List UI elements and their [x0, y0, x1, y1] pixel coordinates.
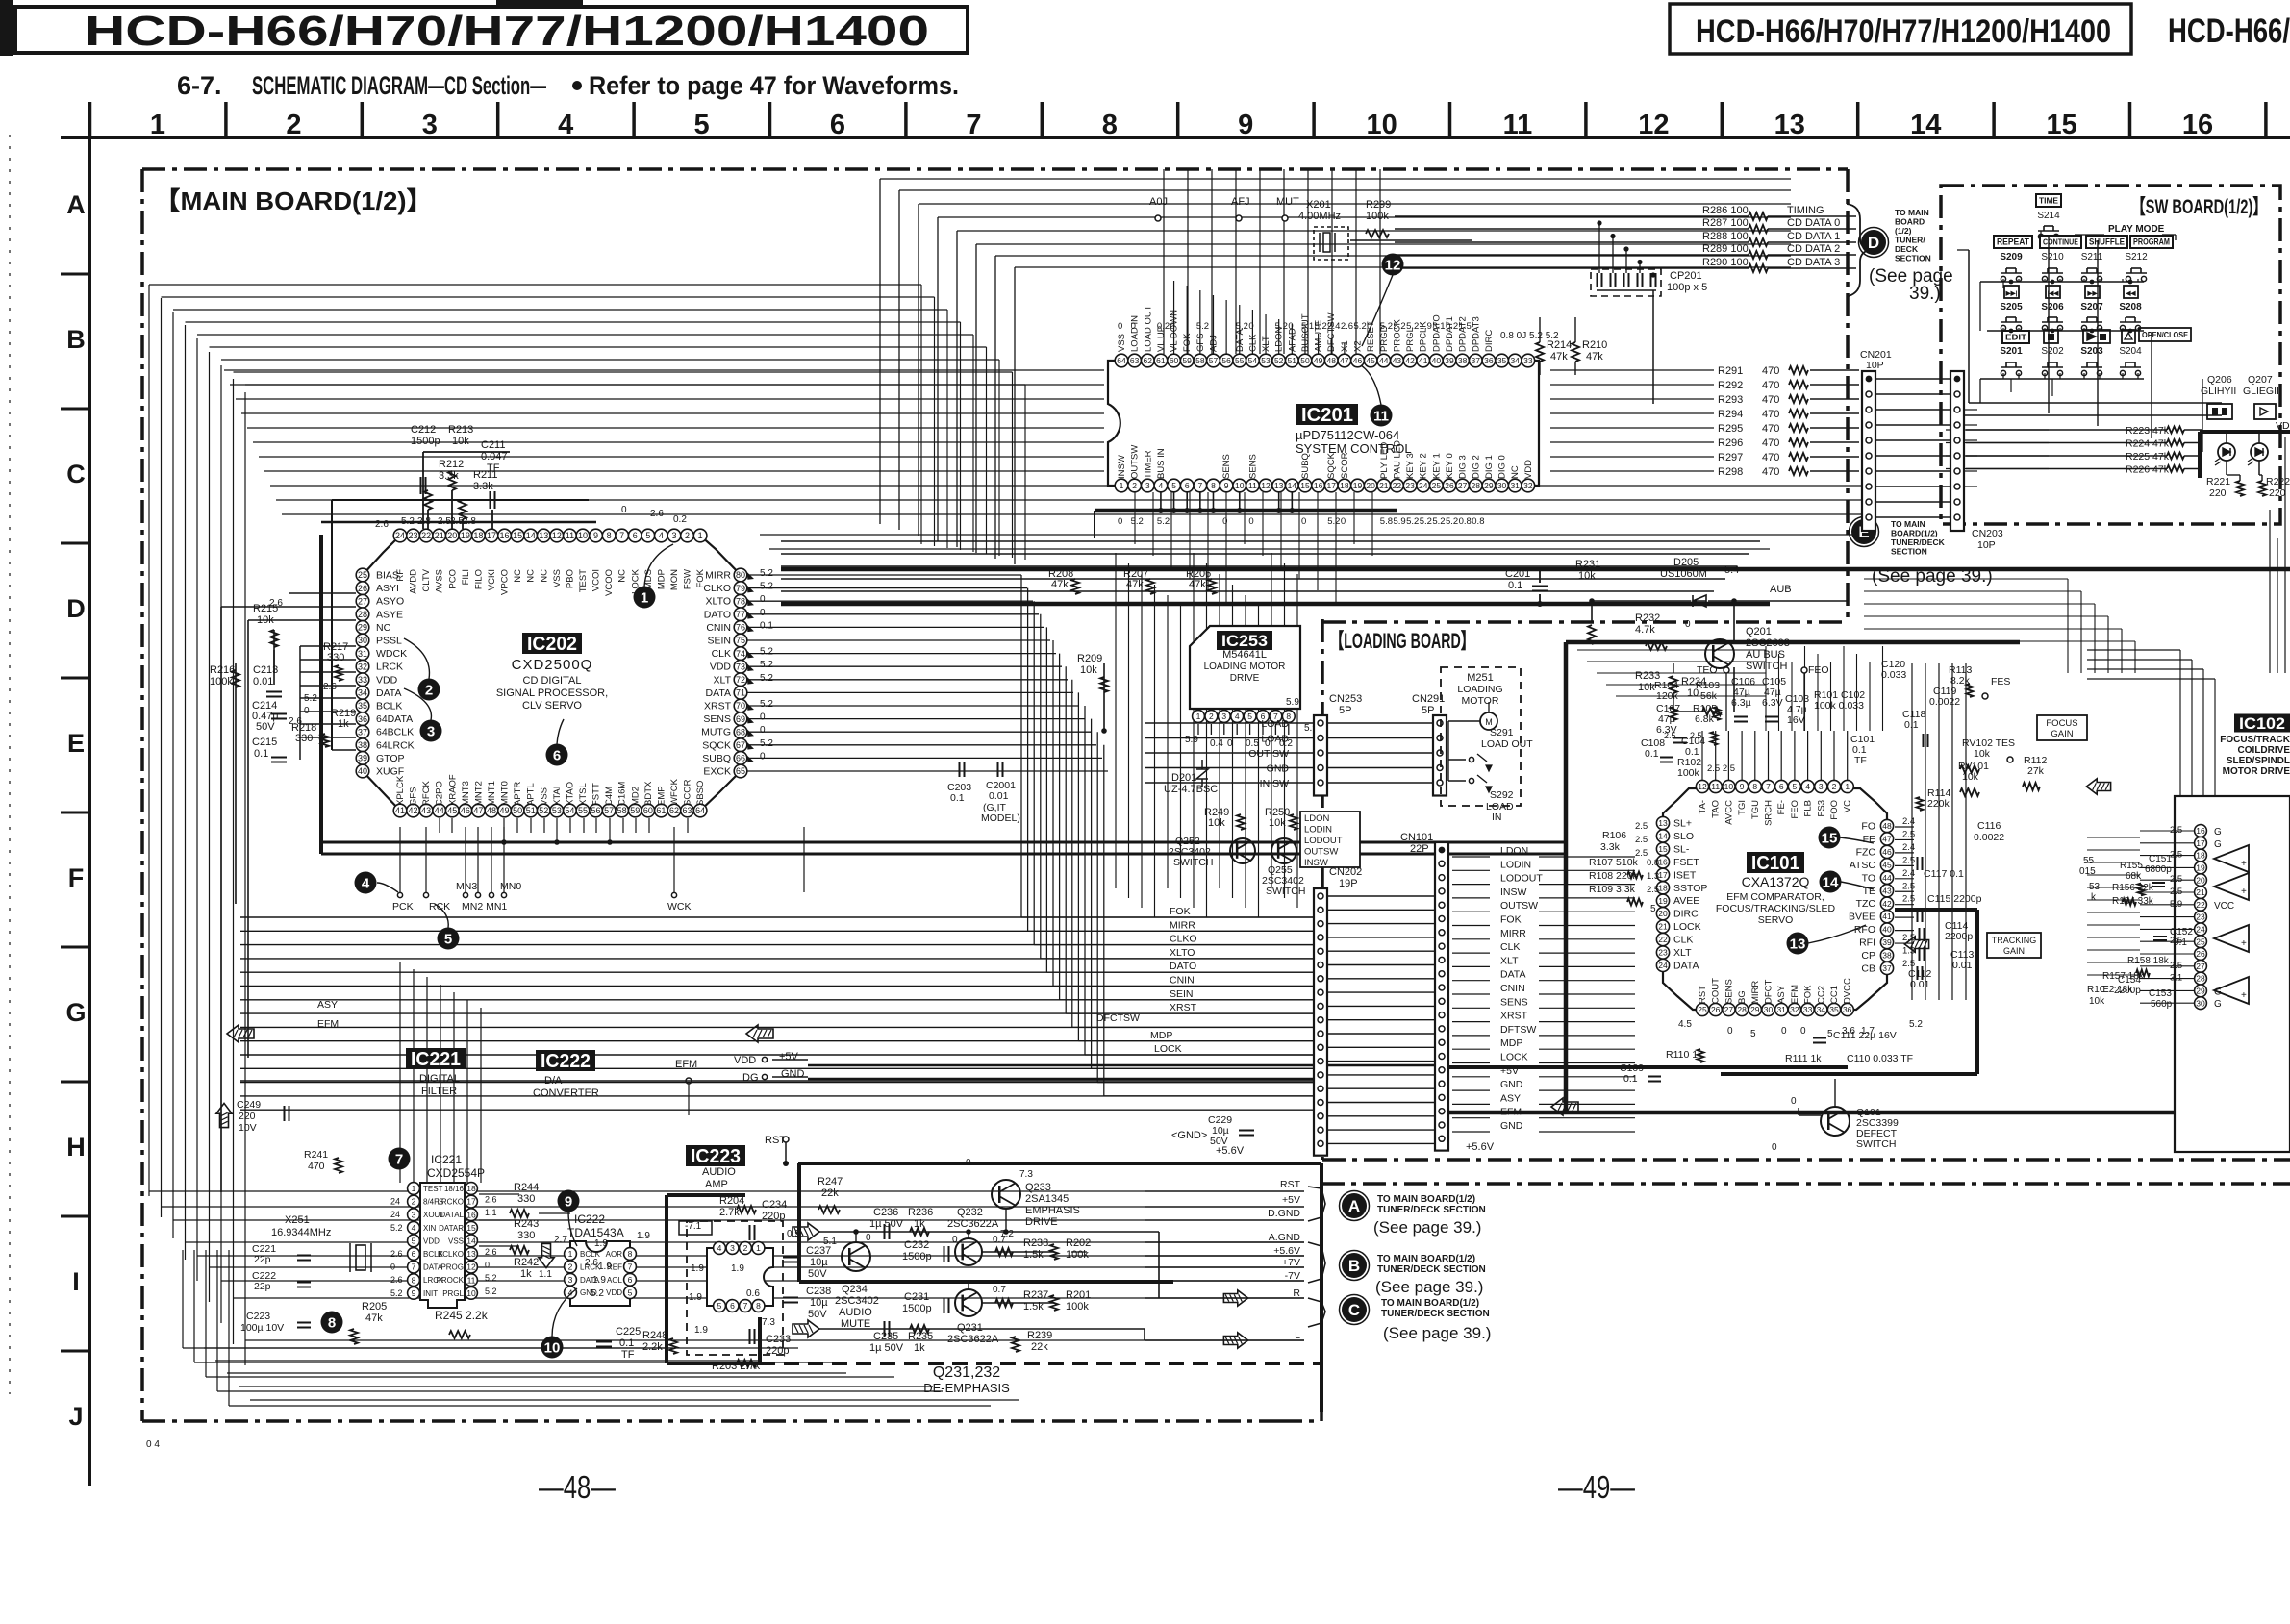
IC102 pin column 16-30 [2195, 825, 2207, 837]
svg-text:AUB: AUB [1770, 584, 1792, 595]
hatched arrows R L to connector C [1223, 1290, 1247, 1306]
svg-text:16: 16 [1658, 857, 1668, 866]
callout digit 6 [546, 744, 568, 766]
svg-text:470: 470 [1762, 365, 1779, 377]
svg-text:2.5: 2.5 [1647, 885, 1659, 895]
svg-text:2: 2 [743, 1243, 748, 1253]
callout digit 14 [1820, 871, 1842, 893]
svg-text:F: F [68, 863, 85, 892]
svg-text:BDTX: BDTX [643, 781, 654, 806]
svg-text:CN101: CN101 [1400, 832, 1433, 843]
svg-text:COUT: COUT [1711, 978, 1722, 1004]
svg-text:0: 0 [1341, 516, 1346, 527]
svg-text:13: 13 [1790, 937, 1806, 953]
svg-text:10k: 10k [1638, 682, 1655, 693]
svg-text:LOCK: LOCK [1500, 1052, 1528, 1063]
svg-text:B: B [1348, 1257, 1360, 1275]
svg-text:5.2: 5.2 [1275, 321, 1288, 332]
IC223 body [707, 1248, 773, 1306]
svg-text:US1060M: US1060M [1660, 568, 1707, 580]
svg-text:5.9: 5.9 [1286, 697, 1299, 708]
svg-text:21: 21 [2196, 887, 2205, 897]
svg-text:0.7: 0.7 [993, 1235, 1006, 1245]
svg-text:64DATA: 64DATA [376, 713, 413, 725]
svg-text:SUBQ: SUBQ [702, 753, 731, 764]
svg-text:3.3k: 3.3k [1600, 841, 1621, 853]
svg-text:2.5 2.5: 2.5 2.5 [1707, 763, 1735, 774]
svg-text:PBO: PBO [565, 569, 575, 588]
svg-text:7.3: 7.3 [762, 1317, 775, 1328]
svg-text:C233: C233 [766, 1334, 791, 1345]
svg-text:22: 22 [1393, 481, 1402, 490]
svg-text:330: 330 [327, 652, 344, 663]
svg-text:7: 7 [743, 1301, 748, 1311]
svg-text:C201: C201 [1505, 568, 1530, 580]
svg-text:20: 20 [2196, 875, 2205, 885]
svg-text:VDD: VDD [606, 1288, 622, 1297]
svg-text:330: 330 [517, 1230, 535, 1241]
svg-text:FOK: FOK [1500, 914, 1522, 926]
heavy GND wire [240, 1080, 1314, 1082]
svg-text:FOK: FOK [1170, 906, 1191, 917]
svg-text:12: 12 [1698, 782, 1707, 791]
svg-text:31: 31 [358, 649, 367, 659]
svg-text:2.4: 2.4 [1902, 842, 1915, 853]
svg-text:69: 69 [736, 714, 745, 724]
svg-text:LOCK: LOCK [1154, 1043, 1182, 1055]
svg-text:470: 470 [1762, 409, 1779, 420]
svg-text:66: 66 [736, 754, 745, 763]
wire bundle IC202 bottom verticals [439, 818, 440, 833]
svg-text:100k: 100k [1066, 1301, 1089, 1312]
svg-text:VSS: VSS [539, 787, 549, 806]
wire bundle verticals from top band down to IC201 [879, 179, 881, 524]
svg-text:DIRC: DIRC [1484, 330, 1495, 352]
svg-text:37: 37 [358, 727, 367, 737]
svg-text:Q232: Q232 [957, 1207, 983, 1218]
svg-text:0: 0 [1781, 1026, 1787, 1037]
top pin wires IC101 [1701, 731, 1703, 780]
svg-text:DFCTSW: DFCTSW [1096, 1012, 1140, 1024]
svg-text:R226 47k: R226 47k [2126, 464, 2170, 476]
svg-text:5.2: 5.2 [760, 699, 773, 710]
IC102 body outline [2175, 796, 2290, 1152]
svg-text:CONVERTER: CONVERTER [533, 1087, 599, 1099]
svg-text:TF: TF [621, 1349, 635, 1361]
svg-text:VSS: VSS [1117, 334, 1127, 352]
capacitor network CP201 100p x5 [1591, 269, 1661, 296]
svg-text:XRST: XRST [1500, 1011, 1528, 1022]
svg-text:100k: 100k [1677, 767, 1700, 779]
svg-text:0: 0 [621, 505, 627, 515]
svg-text:470: 470 [1762, 466, 1779, 478]
svg-text:AOL: AOL [607, 1276, 623, 1285]
svg-text:27: 27 [1724, 1005, 1734, 1014]
svg-text:10k: 10k [2089, 996, 2105, 1007]
svg-text:3: 3 [671, 531, 676, 540]
svg-text:TUNER/DECK SECTION: TUNER/DECK SECTION [1377, 1264, 1486, 1275]
svg-text:SIGNAL PROCESSOR,: SIGNAL PROCESSOR, [496, 687, 608, 699]
svg-text:20: 20 [1658, 909, 1668, 918]
svg-text:1: 1 [1845, 782, 1850, 791]
switch S207 ff button [2085, 286, 2100, 298]
svg-text:49: 49 [500, 806, 510, 815]
svg-text:FE-: FE- [1776, 800, 1787, 814]
svg-text:47k: 47k [1550, 351, 1568, 362]
svg-text:24: 24 [2196, 924, 2205, 934]
svg-text:45: 45 [1366, 356, 1375, 365]
svg-text:4.5: 4.5 [1678, 1019, 1692, 1030]
svg-text:FOK: FOK [1803, 985, 1814, 1004]
svg-text:FILO: FILO [473, 569, 484, 589]
svg-text:10k: 10k [452, 436, 469, 447]
callout digit 2 [418, 679, 440, 701]
svg-text:34: 34 [1817, 1005, 1826, 1014]
IC253 pins 1-8 [1193, 711, 1205, 723]
row ruler line [88, 111, 91, 1486]
svg-text:330: 330 [517, 1193, 535, 1205]
svg-text:220p: 220p [766, 1345, 789, 1357]
svg-text:4: 4 [412, 1223, 416, 1233]
svg-text:A0J: A0J [1149, 196, 1168, 208]
svg-text:CLKO: CLKO [1170, 934, 1197, 945]
svg-text:2.6: 2.6 [485, 1195, 497, 1205]
svg-text:48: 48 [1327, 356, 1337, 365]
svg-text:D.GND: D.GND [1268, 1208, 1300, 1219]
svg-text:R291: R291 [1718, 365, 1743, 377]
svg-text:36: 36 [1843, 1005, 1852, 1014]
wire bundle IC201 top pins up [1173, 281, 1175, 354]
svg-text:SBSO: SBSO [695, 781, 706, 806]
svg-text:80: 80 [736, 570, 745, 580]
IC201 bottom pin row pins 1-32 [1115, 479, 1128, 492]
svg-text:FOCUS/TRACK: FOCUS/TRACK [2220, 735, 2290, 745]
svg-text:1500p: 1500p [902, 1303, 932, 1314]
svg-text:NC: NC [617, 569, 628, 583]
svg-text:SLED/SPINDL: SLED/SPINDL [2227, 756, 2290, 766]
svg-text:0: 0 [1118, 321, 1122, 332]
svg-text:HCD-H66/H70/H77/H1200/H1400: HCD-H66/H70/H77/H1200/H1400 [85, 8, 929, 55]
svg-text:2: 2 [286, 110, 301, 140]
svg-text:R241: R241 [304, 1149, 328, 1161]
svg-text:1µ 50V: 1µ 50V [869, 1218, 904, 1230]
svg-text:CN203: CN203 [1972, 528, 2003, 539]
svg-text:S204: S204 [2119, 346, 2142, 357]
svg-text:0.01: 0.01 [1910, 979, 1930, 990]
svg-text:4.00MHz: 4.00MHz [1298, 211, 1341, 222]
svg-text:XLTO: XLTO [1170, 947, 1195, 959]
svg-text:DATA: DATA [376, 687, 401, 699]
svg-text:1k: 1k [914, 1342, 925, 1354]
svg-text:1.3: 1.3 [1647, 871, 1659, 882]
wire bundle IC202 right fan [747, 574, 1021, 576]
svg-text:BIAS: BIAS [376, 570, 399, 582]
svg-text:5.8: 5.8 [1380, 516, 1393, 527]
svg-text:2.7: 2.7 [554, 1235, 567, 1245]
svg-text:BUS IN: BUS IN [1156, 448, 1167, 479]
svg-text:AOR: AOR [606, 1250, 623, 1259]
svg-text:470: 470 [1762, 423, 1779, 435]
svg-text:0: 0 [485, 1261, 490, 1270]
IC222 label [536, 1050, 595, 1071]
svg-text:5.2: 5.2 [1420, 516, 1432, 527]
svg-text:SSTOP: SSTOP [1673, 883, 1707, 894]
svg-text:2: 2 [1832, 782, 1837, 791]
svg-text:R293: R293 [1718, 394, 1743, 406]
svg-text:77: 77 [736, 610, 745, 619]
svg-text:41: 41 [1419, 356, 1428, 365]
svg-text:7: 7 [628, 1262, 633, 1271]
svg-text:IC222: IC222 [574, 1212, 605, 1226]
svg-text:R247: R247 [818, 1176, 843, 1187]
IC223 top pins 4-1 [714, 1242, 726, 1255]
svg-text:27: 27 [1458, 481, 1468, 490]
svg-text:C238: C238 [806, 1286, 831, 1297]
svg-text:XPLCK: XPLCK [395, 775, 406, 806]
svg-text:49: 49 [1314, 356, 1323, 365]
svg-text:10k: 10k [1578, 570, 1596, 582]
svg-text:5.2: 5.2 [1432, 516, 1445, 527]
svg-text:CC2: CC2 [1816, 986, 1826, 1004]
svg-text:VSS: VSS [552, 569, 563, 587]
svg-text:28: 28 [1472, 481, 1481, 490]
svg-text:R245 2.2k: R245 2.2k [435, 1309, 489, 1322]
svg-text:55: 55 [2083, 856, 2095, 866]
hatched arrow up-left near x460 y1176 [216, 1103, 232, 1127]
svg-text:10V: 10V [239, 1122, 257, 1134]
IC201 label [1296, 404, 1358, 425]
svg-text:Q231,232: Q231,232 [933, 1364, 1000, 1381]
svg-text:11: 11 [1373, 409, 1389, 425]
svg-text:FILI: FILI [461, 569, 471, 585]
svg-text:11: 11 [1503, 110, 1533, 140]
svg-text:0: 0 [1288, 321, 1293, 332]
svg-text:MNT0: MNT0 [500, 781, 511, 806]
svg-text:21: 21 [1379, 481, 1389, 490]
IC222 body [570, 1241, 630, 1306]
svg-text:AUDIO: AUDIO [839, 1307, 872, 1318]
svg-text:C117 0.1: C117 0.1 [1924, 868, 1964, 880]
svg-text:5.2: 5.2 [1196, 321, 1209, 332]
svg-text:11: 11 [1248, 481, 1257, 490]
svg-text:31: 31 [1510, 481, 1520, 490]
svg-text:TO MAIN: TO MAIN [1891, 519, 1925, 529]
svg-text:16: 16 [2196, 826, 2205, 836]
svg-text:B: B [66, 325, 86, 354]
svg-text:2: 2 [1209, 712, 1214, 721]
svg-text:SCOR: SCOR [683, 779, 693, 806]
svg-text:VDD: VDD [734, 1055, 756, 1066]
svg-text:2.6: 2.6 [323, 682, 337, 692]
wire verticals caps cluster above IC101 [1765, 646, 1767, 731]
svg-text:FOCUS/TRACKING/SLED: FOCUS/TRACKING/SLED [1716, 903, 1836, 914]
svg-text:50: 50 [1300, 356, 1310, 365]
connector D circle [1861, 230, 1886, 255]
FOCUS GAIN box [2037, 715, 2087, 740]
svg-text:X251: X251 [285, 1214, 310, 1226]
svg-text:2.4: 2.4 [1902, 868, 1915, 879]
svg-text:5.2: 5.2 [401, 516, 415, 527]
svg-text:ATSC: ATSC [1850, 860, 1876, 871]
svg-text:R202: R202 [1066, 1237, 1091, 1249]
svg-text:D201: D201 [1171, 772, 1196, 784]
svg-text:EXCK: EXCK [703, 766, 731, 778]
svg-text:0: 0 [760, 594, 766, 605]
svg-text:FLB: FLB [1803, 800, 1814, 816]
svg-text:5: 5 [1793, 782, 1798, 791]
svg-text:µPD75112CW-064: µPD75112CW-064 [1296, 428, 1399, 442]
svg-text:R216: R216 [210, 664, 235, 676]
svg-text:LODOUT: LODOUT [1500, 873, 1543, 885]
svg-text:DFCT: DFCT [1764, 979, 1774, 1004]
heavy audio bus top [798, 1162, 1321, 1165]
svg-text:64: 64 [695, 806, 705, 815]
svg-text:MIRR: MIRR [1170, 919, 1195, 931]
svg-text:1: 1 [412, 1184, 416, 1193]
svg-text:M54641L: M54641L [1222, 649, 1267, 661]
svg-text:26: 26 [2196, 949, 2205, 959]
svg-text:DVCC: DVCC [1843, 978, 1853, 1004]
svg-text:2: 2 [685, 531, 690, 540]
svg-text:74: 74 [736, 649, 745, 659]
svg-text:R221: R221 [2206, 476, 2230, 487]
svg-text:6: 6 [1185, 481, 1190, 490]
svg-text:6: 6 [628, 1275, 633, 1285]
svg-text:14: 14 [1288, 481, 1297, 490]
svg-text:VCOO: VCOO [604, 569, 615, 596]
svg-text:SECTION: SECTION [1895, 254, 1931, 263]
svg-text:C152: C152 [2170, 927, 2193, 937]
svg-text:C223: C223 [246, 1311, 270, 1322]
svg-text:32: 32 [1790, 1005, 1799, 1014]
svg-text:14: 14 [466, 1236, 476, 1245]
svg-text:PROCK: PROCK [437, 1276, 465, 1285]
brace to connector D [1847, 204, 1870, 296]
svg-text:61: 61 [1156, 356, 1166, 365]
svg-text:SWITCH: SWITCH [1746, 661, 1787, 672]
M251 loading motor dashed box [1441, 667, 1521, 806]
svg-text:8: 8 [1752, 782, 1757, 791]
svg-text:LOAD OUT: LOAD OUT [1143, 305, 1153, 352]
svg-text:63: 63 [1130, 356, 1140, 365]
wires CN203 to switch matrix [1964, 409, 1977, 411]
svg-text:5.2: 5.2 [1406, 321, 1419, 332]
svg-text:63: 63 [683, 806, 692, 815]
svg-text:C236: C236 [873, 1207, 898, 1218]
svg-text:R298: R298 [1718, 466, 1743, 478]
svg-text:SL-: SL- [1673, 843, 1690, 855]
svg-text:18: 18 [1658, 883, 1668, 892]
svg-text:DFCTSW: DFCTSW [1326, 312, 1337, 352]
svg-text:CD DIGITAL: CD DIGITAL [523, 675, 582, 687]
svg-text:SENS: SENS [1221, 454, 1232, 479]
svg-text:1.9: 1.9 [689, 1292, 702, 1303]
svg-text:R297: R297 [1718, 452, 1743, 463]
svg-text:CD DATA 3: CD DATA 3 [1787, 257, 1840, 268]
svg-text:—48—: —48— [539, 1469, 616, 1505]
svg-text:55: 55 [1235, 356, 1245, 365]
svg-text:MOTOR DRIVE: MOTOR DRIVE [2223, 766, 2290, 777]
switch S206 prev-track button [2046, 286, 2060, 298]
svg-text:FOK: FOK [1182, 333, 1193, 352]
svg-text:2.6: 2.6 [1341, 321, 1353, 332]
svg-text:R111 1k: R111 1k [1785, 1053, 1822, 1064]
wire bundle fan verticals to CN202 rows [1020, 575, 1022, 917]
svg-text:DATO: DATO [704, 609, 731, 620]
connector E circle [1851, 519, 1876, 544]
svg-text:LRCKO: LRCKO [437, 1198, 464, 1207]
svg-text:6: 6 [412, 1249, 416, 1259]
svg-text:7: 7 [1766, 782, 1771, 791]
svg-text:470: 470 [308, 1161, 325, 1172]
SW board vertical drops to connectors [2048, 237, 2050, 413]
svg-text:SERVO: SERVO [1758, 914, 1794, 926]
svg-text:29: 29 [1484, 481, 1494, 490]
connector B circle [1342, 1253, 1367, 1278]
left hatched arrows [227, 1025, 254, 1042]
svg-text:39: 39 [1882, 937, 1892, 947]
svg-text:22: 22 [1658, 935, 1668, 944]
svg-text:+: + [2241, 990, 2247, 1001]
svg-text:47k: 47k [1189, 579, 1206, 590]
svg-text:LOADING: LOADING [1457, 684, 1502, 695]
svg-text:CN202: CN202 [1329, 866, 1362, 878]
svg-text:46: 46 [1882, 847, 1892, 857]
wire bundle left loop horizontals top [149, 284, 921, 286]
svg-text:53: 53 [552, 806, 562, 815]
svg-text:0.1: 0.1 [1645, 748, 1659, 760]
svg-text:53: 53 [1261, 356, 1271, 365]
svg-text:NC: NC [1510, 465, 1521, 479]
MAIN BOARD outline [142, 167, 1848, 171]
svg-text:32: 32 [1523, 481, 1533, 490]
svg-text:RFCK: RFCK [421, 780, 432, 806]
svg-text:C225: C225 [616, 1326, 641, 1337]
heavy dashed de-emphasis bottom [760, 1362, 1321, 1365]
switch S203 play-stop button [2083, 330, 2110, 343]
svg-text:52: 52 [539, 806, 548, 815]
svg-text:0.033: 0.033 [1881, 669, 1906, 681]
svg-text:15: 15 [2046, 110, 2076, 140]
svg-text:0.0022: 0.0022 [1929, 696, 1960, 708]
svg-text:7: 7 [412, 1262, 416, 1272]
svg-text:SLO: SLO [1673, 831, 1694, 842]
svg-text:5: 5 [694, 110, 710, 140]
svg-text:64BCLK: 64BCLK [376, 727, 414, 738]
svg-text:47k: 47k [365, 1312, 383, 1324]
svg-text:0.01: 0.01 [253, 676, 273, 687]
wire bundle from bottom band to audio [183, 1347, 798, 1349]
svg-text:32: 32 [358, 662, 367, 671]
wires CN202 rows to CN101 [1327, 895, 1435, 897]
svg-text:25: 25 [2196, 937, 2205, 946]
svg-text:62: 62 [1144, 356, 1153, 365]
svg-text:5P: 5P [1339, 705, 1351, 716]
switch S212 PROGRAM button [2130, 236, 2173, 248]
IC102 label [2234, 714, 2290, 733]
svg-text:23: 23 [2196, 912, 2205, 922]
IC202 label [522, 633, 582, 654]
svg-text:0.2: 0.2 [1157, 321, 1170, 332]
svg-text:5.1: 5.1 [1301, 321, 1314, 332]
svg-text:CXA1372Q: CXA1372Q [1742, 874, 1810, 889]
thick vertical x334 [319, 535, 323, 854]
svg-text:PLAY MODE: PLAY MODE [2108, 224, 2165, 235]
svg-text:IN: IN [1492, 812, 1502, 823]
svg-text:R239: R239 [1027, 1330, 1052, 1341]
svg-text:TDA1543A: TDA1543A [567, 1226, 624, 1239]
EFM ASY mid-bottom nodes [688, 1084, 690, 1115]
